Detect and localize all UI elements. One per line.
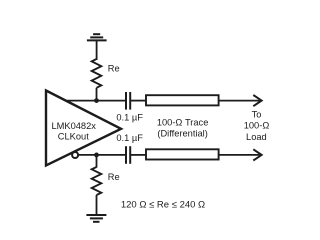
- resistor R2 (bottom Re): [92, 167, 102, 195]
- wire C2 to trace bottom: [130, 154, 146, 156]
- svg-text:100-Ω Trace: 100-Ω Trace: [157, 118, 209, 128]
- node B (junction dot bottom): [94, 153, 99, 158]
- svg-text:0.1 µF: 0.1 µF: [116, 112, 143, 122]
- capacitor C2 (bottom 0.1 uF): [126, 146, 130, 164]
- ground bottom: [86, 215, 106, 222]
- svg-text:CLKout: CLKout: [58, 132, 89, 142]
- inverting bubble on U1 bottom output: [72, 152, 78, 158]
- svg-text:100-Ω: 100-Ω: [244, 121, 270, 131]
- wire R1 to node A: [96, 88, 98, 101]
- arrow top output: [253, 95, 261, 106]
- arrow bottom output: [253, 149, 261, 160]
- node A (junction dot top): [94, 98, 99, 103]
- svg-text:To: To: [252, 109, 262, 119]
- op-amp U1 (LMK0482x CLKout driver triangle): [46, 91, 121, 166]
- svg-text:120 Ω ≤ Re ≤ 240 Ω: 120 Ω ≤ Re ≤ 240 Ω: [121, 200, 205, 211]
- wire trace bottom to load: [219, 154, 260, 156]
- capacitor C1 (top 0.1 uF): [126, 92, 130, 110]
- resistor R1 (top Re): [92, 59, 102, 88]
- transmission line top (100-ohm trace): [146, 95, 219, 105]
- svg-text:(Differential): (Differential): [157, 128, 207, 138]
- wire trace top to load: [219, 100, 260, 102]
- wire ground-top to R1: [96, 40, 98, 60]
- wire node B to R2: [96, 155, 98, 168]
- svg-text:Load: Load: [246, 132, 267, 142]
- ground top: [87, 34, 107, 40]
- wire R2 to ground bottom: [96, 195, 98, 215]
- wire triangle bottom output: [78, 154, 126, 156]
- wire C1 to trace top: [130, 100, 146, 102]
- svg-text:Re: Re: [108, 63, 120, 73]
- svg-text:LMK0482x: LMK0482x: [51, 121, 96, 131]
- label To 100-ohm Load: [244, 109, 270, 141]
- transmission line bottom (100-ohm trace): [146, 149, 219, 159]
- svg-text:Re: Re: [108, 172, 120, 182]
- svg-text:0.1 µF: 0.1 µF: [116, 133, 143, 143]
- wire triangle top output: [67, 100, 126, 102]
